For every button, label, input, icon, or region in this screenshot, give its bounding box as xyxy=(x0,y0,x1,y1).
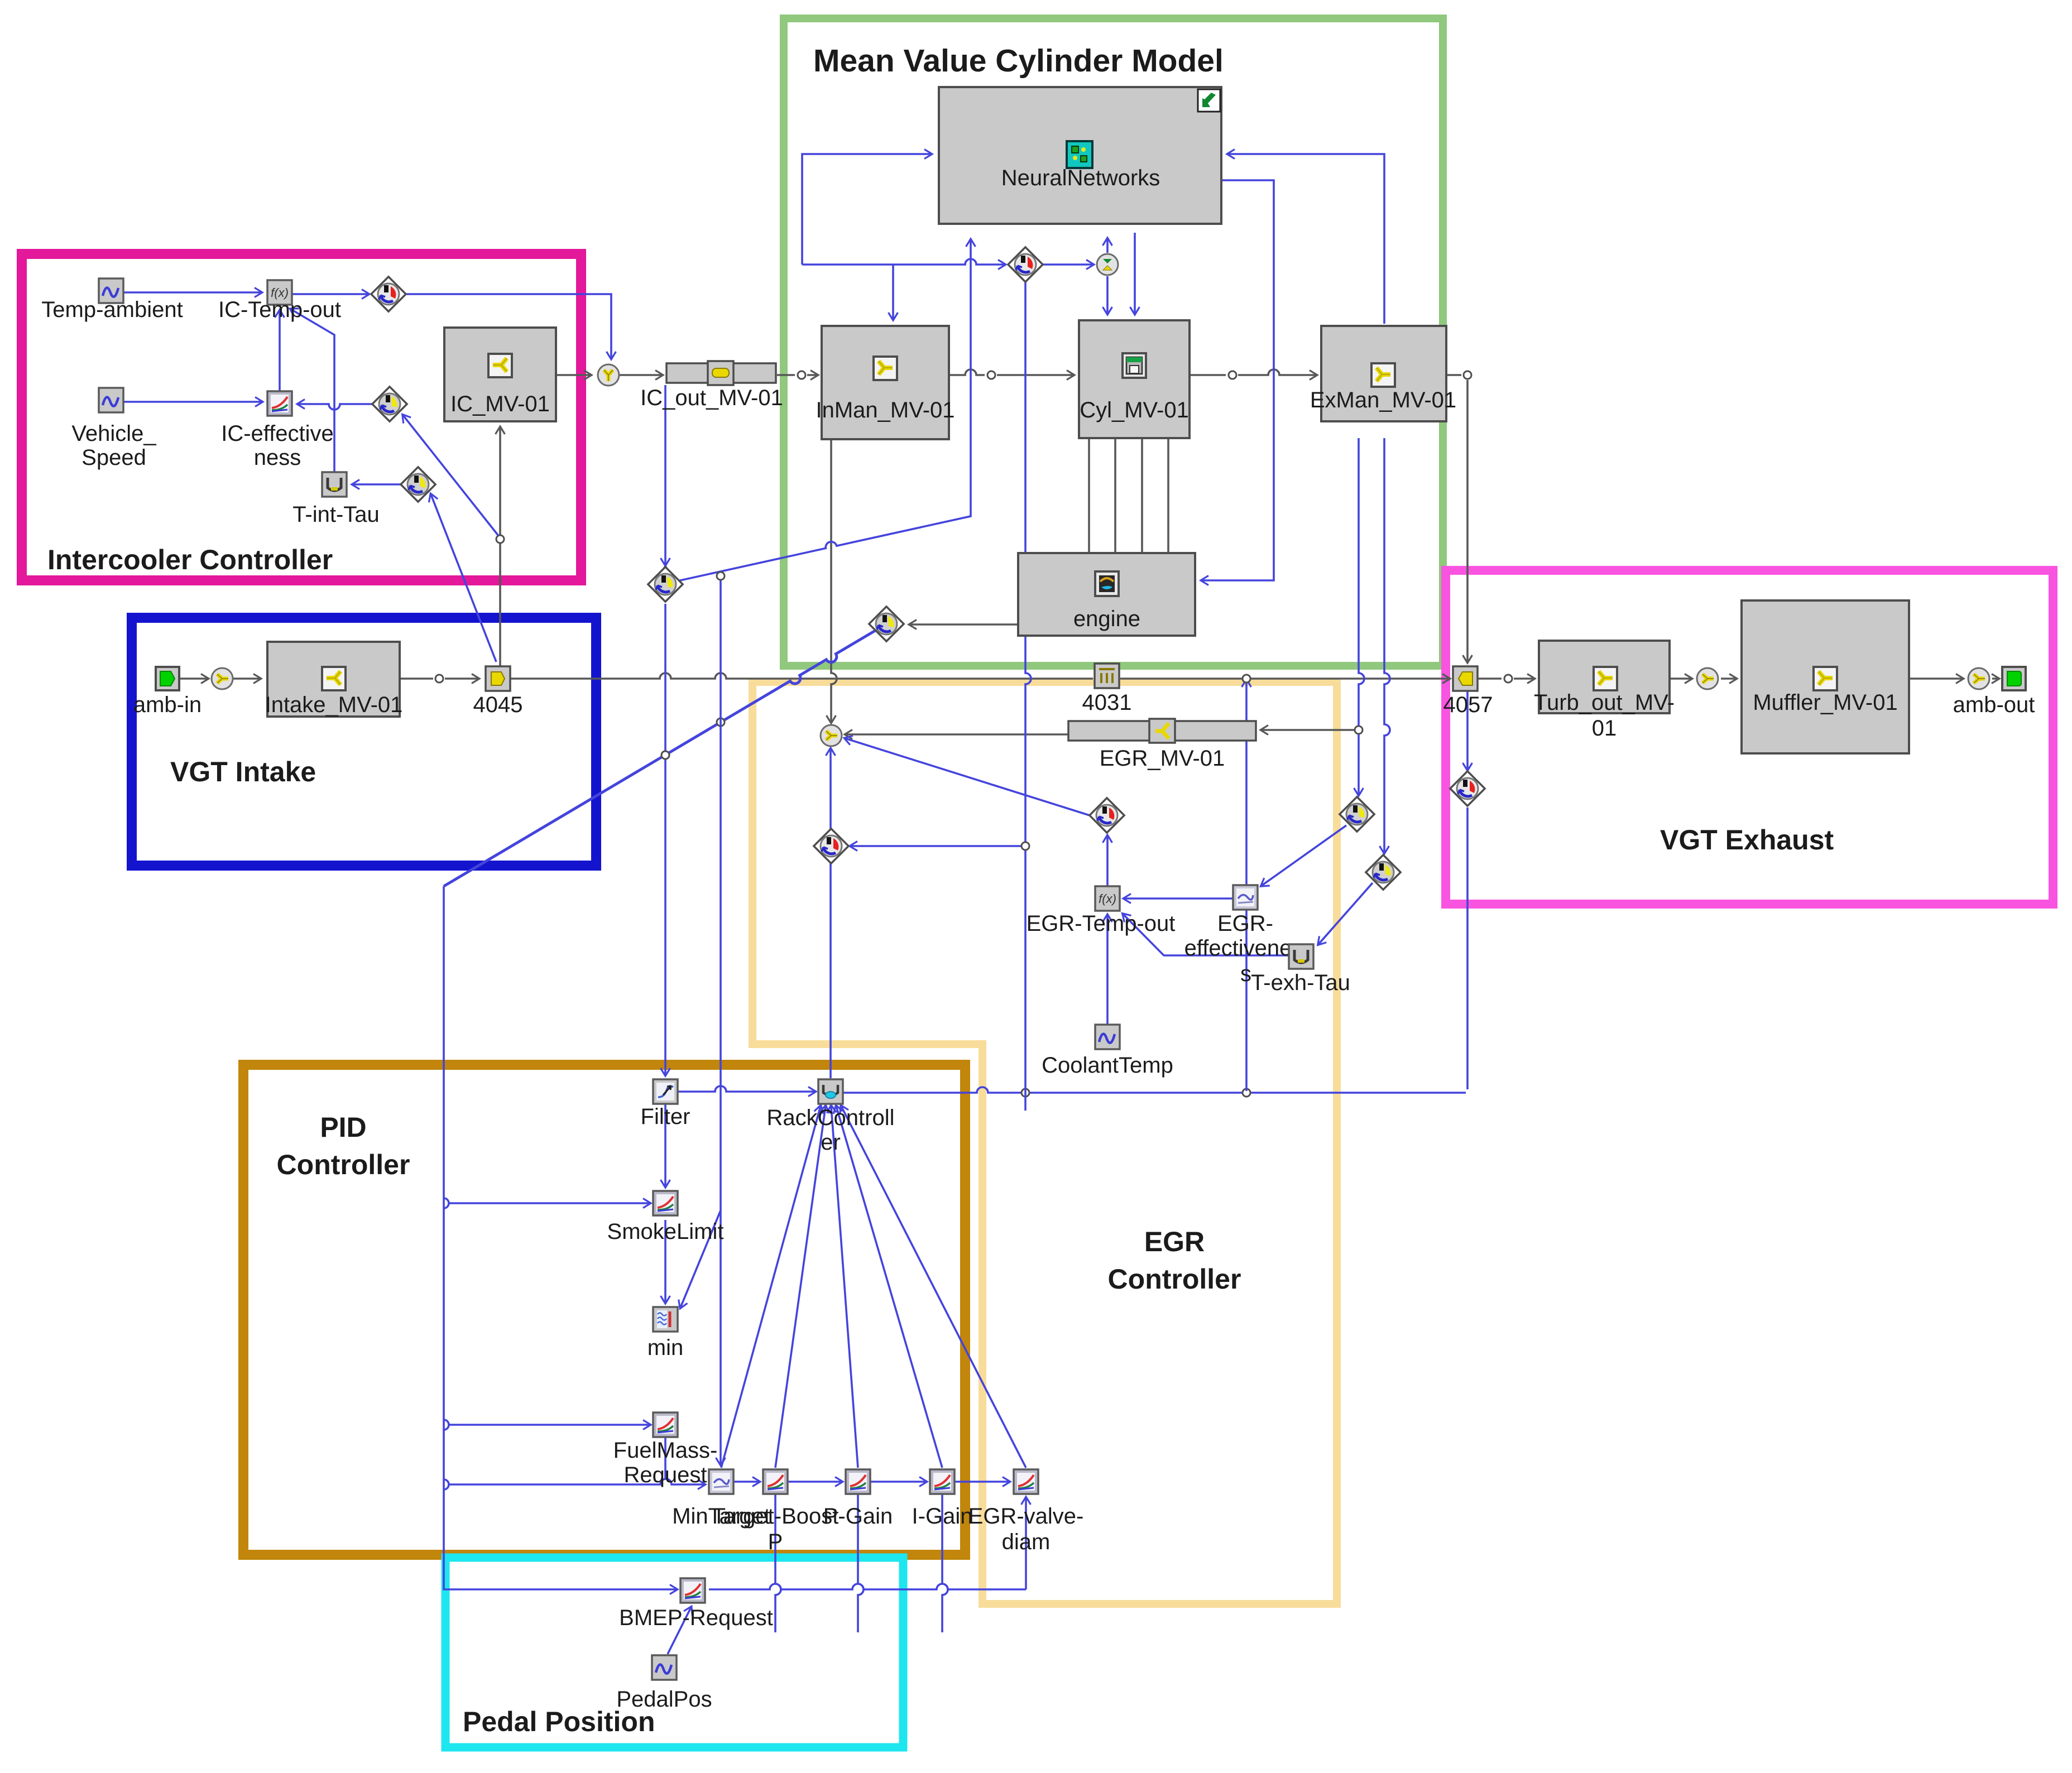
svg-text:effectivenes: effectivenes xyxy=(1184,936,1303,960)
map block FuelMass-Request xyxy=(653,1412,678,1437)
block InMan_MV-01 xyxy=(822,326,949,439)
wire NeuralNetworks to engine xyxy=(1202,180,1274,580)
map block IC-effectiveness xyxy=(267,391,292,416)
wire junction to 4045 xyxy=(445,678,478,680)
svg-text:ness: ness xyxy=(254,445,301,470)
wire 4045 up to IC_MV-01 xyxy=(499,427,501,666)
map block EGR-valve-diam xyxy=(1014,1469,1038,1494)
wire gauge D to T-exh-Tau xyxy=(1318,883,1373,944)
wire I1-column branch to gauge B xyxy=(851,845,1021,847)
wire 4057 down through gauge E xyxy=(1466,691,1469,770)
wire M8 to amb-out xyxy=(1992,678,1998,680)
svg-text:Target-Boost: Target-Boost xyxy=(712,1504,839,1529)
svg-text:4057: 4057 xyxy=(1443,693,1493,717)
gauge D xyxy=(1366,855,1400,890)
svg-text:4045: 4045 xyxy=(473,693,523,717)
wire left loop up to NeuralNetworks xyxy=(802,154,931,265)
block Turb_out_MV-01 xyxy=(1539,641,1670,713)
wire main line 4045 to 4031 xyxy=(510,673,1093,679)
svg-text:Controller: Controller xyxy=(1108,1263,1241,1295)
block IC_MV-01 xyxy=(444,328,556,421)
wire EGR junction to EGR pipe xyxy=(1355,726,1363,734)
svg-text:Vehicle_: Vehicle_ xyxy=(71,421,156,446)
source CoolantTemp xyxy=(1095,1025,1120,1049)
fan wires into RackController xyxy=(721,1106,821,1468)
svg-text:engine: engine xyxy=(1073,607,1140,631)
svg-text:EGR_MV-01: EGR_MV-01 xyxy=(1100,746,1225,771)
svg-text:Request: Request xyxy=(624,1463,707,1487)
svg-text:01: 01 xyxy=(1592,716,1617,741)
wire ExMan bottom to gauge D xyxy=(1384,438,1390,853)
wire D2: gauge H to NeuralNetworks xyxy=(678,240,971,581)
hourglass mixer M5 xyxy=(1097,254,1118,275)
map block Target-Boost-P xyxy=(763,1469,788,1494)
source Temp-ambient xyxy=(99,278,123,303)
wire RackController up to M2 xyxy=(829,749,832,1078)
source amb-in xyxy=(156,667,179,690)
wire kink to min block xyxy=(680,1210,721,1308)
svg-text:SmokeLimit: SmokeLimit xyxy=(607,1219,724,1244)
wire InMan bottom to EGR mixer M2 xyxy=(831,439,837,722)
wire ExMan output xyxy=(1446,374,1461,376)
pipe block EGR_MV-01 xyxy=(1068,721,1256,741)
svg-text:EGR-valve-: EGR-valve- xyxy=(968,1504,1084,1529)
trunk branch bubbles xyxy=(444,1198,449,1208)
mixer M2 EGR xyxy=(821,725,842,746)
svg-text:VGT Intake: VGT Intake xyxy=(170,756,316,787)
wire Muffler to mixer M8 xyxy=(1909,678,1963,680)
pipe block IC_out_MV-01 xyxy=(666,363,776,383)
svg-text:RackControll: RackControll xyxy=(767,1106,895,1130)
map block MinTarget xyxy=(709,1469,733,1494)
wire ExMan bottom to gauge C xyxy=(1359,438,1364,725)
svg-text:4031: 4031 xyxy=(1082,690,1132,715)
block NeuralNetworks U-NN xyxy=(939,87,1221,224)
wire ExMan top to NeuralNetworks xyxy=(1228,154,1384,324)
wire trunk to FuelMass-Request xyxy=(449,1424,650,1426)
wire gauge d3 to T-int-Tau xyxy=(353,483,401,486)
wire 4057 to junction to Turb_out xyxy=(1478,678,1502,680)
wire M7 to Muffler xyxy=(1721,678,1736,680)
wire CoolantTemp to fx-EGR xyxy=(1106,915,1109,1025)
map block EGR-effectiveness xyxy=(1233,885,1258,910)
wire main line 4031 to 4057 xyxy=(1120,678,1449,680)
source Vehicle_Speed xyxy=(99,388,123,412)
wire trunk to MinTarget row xyxy=(449,1479,704,1484)
filter block Filter xyxy=(653,1079,678,1104)
svg-text:Muffler_MV-01: Muffler_MV-01 xyxy=(1753,690,1897,715)
svg-text:amb-in: amb-in xyxy=(133,693,202,717)
svg-text:NeuralNetworks: NeuralNetworks xyxy=(1001,166,1160,190)
svg-text:Intercooler Controller: Intercooler Controller xyxy=(47,544,333,575)
frame Mean Value Cylinder Model (green) xyxy=(784,18,1443,666)
wire H2848 BMEP to EGR-valve-diam xyxy=(709,1584,1026,1589)
wire boost column: pipe to gauge H to Filter xyxy=(664,385,666,565)
svg-text:InMan_MV-01: InMan_MV-01 xyxy=(816,398,955,422)
wire InMan to Cyl xyxy=(949,369,985,375)
wire up into EGR-valve-diam xyxy=(1025,1498,1027,1589)
svg-text:Intake_MV-01: Intake_MV-01 xyxy=(265,693,403,717)
wire mixer to Intake_MV-01 xyxy=(233,678,260,680)
wire gauge A to M2 xyxy=(845,738,1090,815)
svg-text:BMEP-Request: BMEP-Request xyxy=(619,1606,773,1630)
wire PedalPos to BMEP-Request xyxy=(668,1607,691,1654)
wire long diagonal D1 engine-gauge to PID trunk xyxy=(444,629,878,886)
wire M5 down to Cyl xyxy=(1106,276,1109,314)
block Intake_MV-01 xyxy=(267,642,400,717)
svg-text:Speed: Speed xyxy=(81,445,146,470)
wire engine to gauge G xyxy=(910,623,1018,626)
stubs below row blocks xyxy=(775,1494,781,1632)
wire T-exh-Tau to fx-EGR xyxy=(1123,914,1288,955)
wire d1 to M4 xyxy=(406,294,611,358)
block engine xyxy=(1018,553,1195,636)
svg-text:IC_MV-01: IC_MV-01 xyxy=(450,392,550,416)
svg-text:Filter: Filter xyxy=(641,1104,690,1129)
wire Cyl to engine pipes xyxy=(1088,438,1090,553)
svg-text:EGR-Temp-out: EGR-Temp-out xyxy=(1027,911,1176,936)
svg-text:min: min xyxy=(647,1335,683,1360)
svg-text:T-int-Tau: T-int-Tau xyxy=(292,502,380,527)
wire gauge d2 to IC-effectiveness xyxy=(298,404,372,410)
wire 4045 area to gauge d3 xyxy=(431,494,496,662)
gauge d3 xyxy=(401,467,435,502)
gauge I1 xyxy=(1008,247,1043,282)
svg-text:EGR: EGR xyxy=(1144,1226,1205,1257)
wire T-int-Tau up and to fx xyxy=(291,309,334,472)
junction circle after Intake xyxy=(435,675,443,683)
wire Temp-ambient to fx xyxy=(123,291,261,294)
wire P-Gain->I-Gain xyxy=(870,1481,926,1483)
svg-text:Mean Value Cylinder Model: Mean Value Cylinder Model xyxy=(813,43,1224,79)
wire Turb_out to mixer M7 xyxy=(1670,678,1691,680)
svg-text:IC_out_MV-01: IC_out_MV-01 xyxy=(640,386,783,410)
svg-text:Controller: Controller xyxy=(277,1149,410,1180)
source PedalPos xyxy=(652,1655,677,1680)
gauge d2 xyxy=(372,387,407,421)
wire FuelMass down to row xyxy=(664,1437,666,1480)
svg-text:Cyl_MV-01: Cyl_MV-01 xyxy=(1080,398,1189,422)
wire TargetBoost->P-Gain xyxy=(788,1481,842,1483)
wire RackController output to right xyxy=(842,1087,1466,1093)
svg-text:diam: diam xyxy=(1002,1530,1051,1554)
wire Filter to RackController xyxy=(677,1086,815,1092)
svg-text:er: er xyxy=(821,1130,841,1155)
gauge B xyxy=(814,829,848,863)
svg-text:IC-effective: IC-effective xyxy=(221,421,334,446)
block ExMan_MV-01 xyxy=(1321,326,1446,421)
open-subsystem corner icon xyxy=(1198,89,1220,112)
wire Cyl to ExMan xyxy=(1190,374,1226,376)
mixer M8 xyxy=(1968,668,1989,689)
gauge C xyxy=(1340,797,1374,832)
frame Intercooler Controller (pink) xyxy=(22,254,581,580)
wire EGR-effectiveness to fx-EGR xyxy=(1124,897,1232,900)
svg-text:IC-Temp-out: IC-Temp-out xyxy=(218,297,341,322)
svg-text:P: P xyxy=(768,1530,783,1554)
tau block T-exh-Tau xyxy=(1289,944,1313,969)
tau block T-int-Tau xyxy=(322,472,347,497)
mixer M7 xyxy=(1697,668,1718,689)
wire I-Gain->EGR-valve-diam xyxy=(955,1481,1009,1483)
svg-text:amb-out: amb-out xyxy=(1953,693,2035,717)
svg-text:Turb_out_MV-: Turb_out_MV- xyxy=(1534,690,1675,715)
svg-text:ExMan_MV-01: ExMan_MV-01 xyxy=(1310,388,1456,412)
block Muffler_MV-01 xyxy=(1742,600,1909,753)
wire Intake_MV-01 to junction xyxy=(400,678,433,680)
wire InMan top input xyxy=(892,265,894,319)
svg-text:VGT Exhaust: VGT Exhaust xyxy=(1660,824,1834,856)
mixer M6 xyxy=(212,668,233,689)
wire EGR pipe to mixer M2 xyxy=(846,733,1068,736)
wire branch up to main near 4031 xyxy=(1245,680,1248,1091)
sensor block 4057 xyxy=(1453,666,1478,691)
junction on IC vertical xyxy=(496,535,504,543)
wire fx to gauge d1 xyxy=(292,293,368,295)
mixer M4 xyxy=(598,364,619,386)
frame Pedal Position (cyan) xyxy=(445,1558,903,1747)
frame PID Controller (orange) xyxy=(243,1065,965,1555)
svg-text:I-Gain: I-Gain xyxy=(912,1504,973,1529)
svg-text:FuelMass-: FuelMass- xyxy=(613,1438,718,1463)
wire NN down to Cyl second xyxy=(1134,233,1136,314)
frame VGT Intake (blue) xyxy=(132,618,596,866)
wire IC_MV-01 to mixer M4 xyxy=(556,374,591,376)
sensor block 4045 xyxy=(486,666,510,691)
gauge H boost xyxy=(648,567,683,602)
wire amb-in to mixer xyxy=(179,678,208,680)
svg-text:CoolantTemp: CoolantTemp xyxy=(1042,1053,1173,1078)
wire Filter to SmokeLimit xyxy=(664,1104,666,1186)
wire IC-effectiveness up to fx xyxy=(279,311,281,391)
wire row chain MinTarget->TargetBoost xyxy=(733,1481,759,1483)
gauge E xyxy=(1450,771,1485,806)
gauge A xyxy=(1090,798,1124,833)
wire Vehicle_Speed to IC-effectiveness xyxy=(123,401,262,403)
fx block EGR-Temp-out xyxy=(1095,886,1120,911)
svg-text:EGR-: EGR- xyxy=(1217,911,1273,936)
svg-text:PID: PID xyxy=(320,1112,366,1143)
svg-text:s: s xyxy=(1240,962,1251,986)
wire fx-EGR up to gauge A xyxy=(1106,836,1109,886)
svg-text:PedalPos: PedalPos xyxy=(616,1687,712,1712)
frame VGT Exhaust (magenta) xyxy=(1446,570,2053,904)
wire ExMan down to 4057 xyxy=(1466,380,1469,662)
wire trunk to SmokeLimit xyxy=(449,1202,650,1204)
wire PID trunk xyxy=(444,886,677,1589)
map block BMEP-Request xyxy=(680,1578,705,1603)
wire gauge I1 to hourglass M5 xyxy=(1043,263,1093,266)
map block SmokeLimit xyxy=(653,1191,678,1215)
wire SmokeLimit to min xyxy=(664,1220,666,1303)
wire M5 up to NN xyxy=(1106,239,1109,253)
min block xyxy=(653,1307,678,1332)
rack block RackController xyxy=(818,1079,843,1104)
sink amb-out xyxy=(2002,667,2026,690)
frame EGR Controller (tan polygon) xyxy=(752,682,1337,1604)
gauge d1 xyxy=(371,277,406,311)
svg-text:T-exh-Tau: T-exh-Tau xyxy=(1251,970,1350,995)
wire gauge I1 down to Rack line xyxy=(1025,282,1031,1111)
wire pipe to junction to InMan xyxy=(777,374,795,376)
wire M4 to IC_out pipe xyxy=(620,374,662,376)
wire gauge C to EGR-effectiveness xyxy=(1262,825,1346,886)
svg-text:P-Gain: P-Gain xyxy=(823,1504,893,1529)
junction on I1 column at branch xyxy=(1021,842,1029,850)
map block P-Gain xyxy=(846,1469,870,1494)
gauge G engine-speed xyxy=(869,607,904,641)
block Cyl_MV-01 xyxy=(1079,320,1190,438)
wire NeuralNetworks down-diagonal D2 xyxy=(664,567,666,602)
wire x1291 column to MinTarget xyxy=(720,576,722,1464)
fx block IC xyxy=(267,280,292,305)
wire junction to gauge d2 xyxy=(403,415,498,536)
svg-text:Temp-ambient: Temp-ambient xyxy=(41,297,183,322)
map block I-Gain xyxy=(930,1469,955,1494)
wire y474: to gauge I1 xyxy=(802,259,1005,265)
sensor block 4031 xyxy=(1095,664,1119,688)
